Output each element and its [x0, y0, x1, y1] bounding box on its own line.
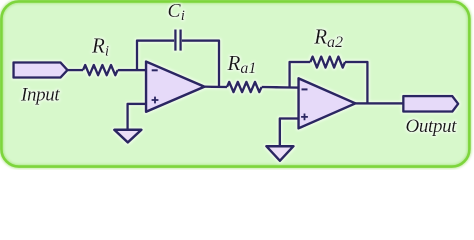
capacitor Ci left plate	[174, 30, 176, 51]
wire non-inverting input to ground 2	[280, 119, 299, 147]
resistor Ri	[83, 65, 118, 75]
panel border soft glow	[1, 1, 469, 166]
wire node A up to capacitor feedback	[137, 41, 174, 71]
op-amp U2 plus sign	[301, 114, 308, 121]
svg-text:Input: Input	[20, 84, 60, 105]
svg-text:Output: Output	[406, 116, 458, 137]
op-amp U2	[299, 78, 356, 128]
wire capacitor to output node	[182, 41, 219, 87]
op-amp U2 minus sign	[302, 88, 308, 90]
wire Ri to op-amp inverting input	[118, 69, 146, 71]
capacitor Ci right plate	[179, 30, 181, 51]
wire Ra1 to op-amp U2 inverting input	[262, 86, 299, 89]
wire Ra2 down to output node	[345, 62, 367, 103]
wire op-amp U2 output to terminal	[356, 102, 404, 104]
resistor Ra1	[227, 82, 262, 92]
op-amp U1 plus sign	[152, 97, 159, 104]
op-amp U1	[146, 62, 205, 112]
panel background with green rounded border	[1, 1, 469, 166]
panel border	[1, 1, 469, 166]
wire non-inverting input to ground 1	[128, 104, 146, 130]
wire op-amp U1 output	[205, 85, 228, 88]
ground 2	[266, 146, 293, 161]
op-amp U1 minus sign	[152, 69, 158, 71]
wire node B up to Ra2 feedback	[290, 62, 311, 88]
output terminal	[403, 96, 458, 112]
input terminal	[14, 62, 68, 77]
wire input to Ri	[68, 69, 84, 71]
ground 1	[114, 130, 141, 143]
resistor Ra2	[310, 57, 345, 68]
